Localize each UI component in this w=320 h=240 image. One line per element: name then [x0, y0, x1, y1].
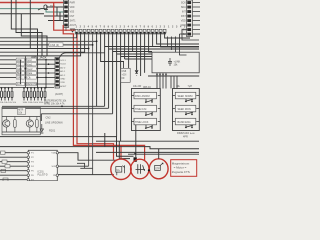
svg-text:VDD: VDD [181, 20, 186, 23]
wire into CN8 [123, 62, 125, 69]
wire pin2 left fan [0, 33, 81, 56]
svg-text:CN2: CN2 [46, 117, 52, 120]
svg-text:ACK: ACK [17, 83, 22, 86]
svg-text:4PR: 4PR [183, 135, 188, 138]
wire vertical bus left C [21, 14, 47, 56]
svg-text:10k AW: 10k AW [133, 85, 142, 88]
svg-text:AOUT: AOUT [60, 85, 67, 88]
svg-text:VDD: VDD [60, 82, 65, 84]
harness row 4 [0, 71, 55, 75]
filter box F4 [1, 169, 6, 172]
svg-text:SHT1: SHT1 [70, 21, 77, 23]
wire CN9 drop 1 [182, 30, 199, 41]
filter box F3 [5, 165, 10, 168]
IC1 pin numbers [76, 26, 186, 29]
harness row 2 [0, 63, 55, 67]
wire pin14 right bus [128, 33, 130, 68]
wire CN pin2 [46, 6, 64, 8]
connector CN7 body [55, 58, 60, 89]
svg-text:+CN: +CN [122, 75, 127, 77]
svg-text:CN8: CN8 [122, 71, 127, 73]
connector CN1 pin labels [70, 3, 77, 28]
wire right weave 2 [171, 37, 173, 51]
IC201 body [28, 150, 57, 181]
wire IC201 out1 [59, 153, 117, 161]
svg-text:INT: INT [182, 11, 186, 14]
wire pin4 long vertical [88, 33, 90, 166]
wire pin7 [101, 33, 124, 62]
wire matrix drop 4 [165, 73, 167, 89]
switch S4 box [175, 92, 196, 99]
wire full width mid [0, 147, 199, 149]
wire fan drop to bus [96, 41, 98, 106]
harness row 1 [0, 58, 55, 62]
svg-text:VDD: VDD [70, 7, 75, 9]
wire harness junction column [45, 60, 47, 88]
svg-text:(ACRT): (ACRT) [55, 93, 63, 96]
IC201 left pins [27, 152, 29, 181]
wire driver top rail [2, 116, 40, 118]
svg-text:10k 10k 10k 10k: 10k 10k 10k 10k [0, 102, 17, 104]
switch S3 box [134, 118, 157, 125]
wire pin pad bus [75, 33, 166, 35]
wire IC201 in2 [0, 156, 27, 158]
wire matrix drop 1 [156, 73, 158, 89]
plug symbol TM5 [38, 5, 48, 10]
node harness dots [45, 59, 49, 88]
svg-text:SCK: SCK [181, 2, 186, 5]
svg-text:CN6 (3): CN6 (3) [50, 43, 59, 47]
wire driver bottom rail [2, 131, 40, 133]
wire red trace inner [63, 25, 144, 160]
svg-text:LINE UP/DOWN: LINE UP/DOWN [45, 122, 63, 125]
switch S3 contacts [132, 122, 154, 129]
svg-text:Data: Data [27, 72, 33, 75]
wire IC201 out2 [59, 165, 89, 167]
switch matrix left frame [132, 89, 161, 131]
wire pin9 to matrix [109, 33, 199, 108]
connector CN9 labels [180, 2, 186, 37]
wire matrix drop 3 [162, 73, 164, 89]
switch S6 box [175, 118, 196, 125]
wire pin15 right bus [132, 33, 134, 52]
diode D1 [135, 71, 138, 74]
wire into M3 [158, 149, 160, 159]
wire matrix drop 6 [173, 76, 175, 89]
svg-text:A-66: A-66 [190, 132, 195, 135]
svg-text:SCLK: SCLK [60, 64, 66, 66]
connector CN9 body top right [187, 0, 193, 37]
svg-text:STP: STP [155, 168, 160, 170]
capacitor C9 between motors [134, 125, 137, 162]
motor M1 circled [111, 159, 131, 179]
wire jack drop 1 [20, 60, 22, 84]
wire pin23 [165, 33, 190, 38]
node CN6 label [49, 43, 63, 47]
wire resistor ladder bus [0, 87, 54, 89]
annotation red note box [171, 160, 197, 177]
wire matrix drop 2 [159, 73, 161, 89]
wire black horizontal top-left [0, 13, 44, 15]
switch S4 contacts [185, 96, 199, 102]
wire CN2 line [41, 114, 112, 121]
switch matrix right frame [173, 89, 200, 131]
wire IC201 in6 [0, 174, 27, 176]
wire IC201 in1 [0, 152, 27, 154]
wire pin21 [157, 33, 199, 44]
resistor bank 1 [1, 88, 13, 101]
svg-text:Zugseite FTS: Zugseite FTS [172, 170, 190, 174]
wire pin18 [144, 33, 146, 73]
node junction fan [88, 40, 98, 49]
wire red supply top rail [0, 2, 66, 4]
wire pin5 long vertical [92, 33, 94, 175]
wire left bus row [0, 44, 93, 46]
box MTR label [18, 108, 26, 115]
connector CN8 box [121, 68, 130, 82]
wire pin6 left fan [0, 33, 97, 41]
wire pin17 [140, 33, 142, 76]
svg-text:GND: GND [180, 24, 186, 27]
wire vertical bus left A [11, 0, 37, 56]
switch S5 box [175, 105, 196, 112]
svg-text:SEEK NORM: SEEK NORM [178, 95, 193, 98]
wire pin19 [149, 33, 152, 52]
IC201 right pins [56, 152, 58, 177]
connector CN9 pins [187, 1, 191, 35]
wire lower right bus [96, 152, 199, 154]
svg-text:SCK: SCK [52, 166, 57, 168]
switch S1 contacts [132, 96, 154, 103]
wire matrix drop 5 [170, 76, 172, 89]
svg-text:TIME D-M: TIME D-M [135, 108, 146, 111]
resistor bank 2 [23, 88, 46, 101]
wire pin11 staircase [117, 33, 152, 137]
svg-text:100k 100k 100k 100k 100k: 100k 100k 100k 100k 100k [23, 102, 50, 104]
wire pin16 diode branch [136, 33, 138, 76]
motor M2 circled [131, 159, 149, 179]
transistor Q2 [26, 120, 33, 127]
connector CN7 labels [60, 60, 67, 88]
svg-text:AD 0: AD 0 [60, 66, 66, 69]
wire jack drop 2 [24, 57, 26, 88]
svg-text:PLL/DT-D: PLL/DT-D [38, 175, 48, 177]
resistor bank 1 dots [1, 87, 13, 89]
wire bottom elbow texture [77, 163, 93, 168]
wire full width upper [0, 137, 134, 157]
wire right weave 1 [167, 37, 169, 48]
transistor Q1 [3, 120, 10, 127]
switch S6 contacts [185, 122, 199, 128]
svg-text:Key1: Key1 [27, 64, 33, 66]
wire matrix drop 7 [176, 76, 178, 89]
wire pin12 down to bottom [119, 33, 152, 159]
wire right stub KOM [96, 140, 199, 142]
box driver stage [2, 107, 40, 135]
svg-text:7μH: 7μH [188, 85, 193, 88]
svg-text:LRG: LRG [17, 60, 22, 62]
filter box F5 [3, 178, 8, 181]
svg-text:VSS: VSS [70, 12, 75, 14]
node dots under box [156, 74, 166, 75]
wire double remote bus lower [2, 107, 109, 109]
svg-text:R201: R201 [49, 129, 56, 133]
node dot between M2 M3 [148, 169, 150, 171]
wire pin8 to matrix [105, 33, 199, 147]
wire CN9 drop 2 [180, 34, 187, 55]
wire jack drop 3 [37, 57, 39, 88]
node jack drop dots [20, 68, 39, 89]
IC201 left pin labels [31, 153, 34, 182]
filter box F2 [2, 160, 7, 163]
switch S1 box [134, 92, 157, 99]
svg-text:GRN: GRN [17, 69, 22, 71]
svg-text:SCL1: SCL1 [60, 60, 66, 62]
motor M3 circled [149, 159, 168, 179]
connector CN7 pins [56, 58, 59, 86]
switch matrix mid bracket [158, 96, 160, 122]
wire double remote bus upper [2, 105, 105, 107]
svg-text:MTR: MTR [18, 110, 23, 112]
svg-text:REMOTE: REMOTE [27, 84, 37, 86]
wire IC201 in7 [0, 179, 27, 181]
svg-text:CNT: CNT [70, 16, 75, 18]
wire vertical bus left B [16, 0, 42, 56]
resistor bank 2 dots [23, 87, 46, 89]
svg-text:GND: GND [60, 79, 65, 81]
svg-text:RST: RST [181, 15, 186, 18]
wire teal signal [0, 9, 64, 12]
wire pin20 [152, 33, 154, 46]
wire IC201 in4 [0, 165, 27, 167]
IC201 right pin labels [51, 153, 56, 178]
switch S2 box [134, 105, 157, 112]
connector CN1 body [64, 0, 69, 28]
wire below box [148, 75, 199, 77]
box shield right [152, 52, 199, 73]
wire pin3 left fan [0, 33, 85, 52]
ground diode below CN1 [66, 28, 75, 35]
capacitor +LINK [168, 58, 172, 66]
svg-text:AD 2: AD 2 [60, 74, 66, 77]
switch matrix right bracket [173, 96, 177, 122]
wire IC201 in5 [0, 170, 27, 172]
svg-text:TIME LOCK: TIME LOCK [135, 121, 149, 124]
node junction remote [61, 105, 63, 107]
wire CN pin5 [48, 12, 64, 21]
wire CN pin4 [44, 7, 64, 16]
switch S5 contacts [185, 109, 199, 115]
svg-text:DISC AM/FM: DISC AM/FM [135, 95, 150, 98]
wire red trace outer [54, 3, 114, 160]
wire left bus row b [0, 48, 89, 50]
connector CN1 pins [64, 1, 68, 26]
wire pin10 to matrix [113, 33, 152, 114]
switch S2 contacts [132, 109, 154, 116]
wire pin13 right bus [125, 33, 152, 59]
svg-text:Gnd: Gnd [27, 60, 32, 62]
svg-text:SDA: SDA [181, 6, 186, 9]
svg-text:Key2: Key2 [27, 69, 33, 71]
harness row 3 [0, 67, 55, 71]
wire CN7 top elbow [60, 53, 105, 58]
svg-text:AD 1: AD 1 [60, 70, 66, 73]
harness row 5 [0, 76, 55, 80]
harness row 6 [0, 82, 55, 86]
IC1 pin dots [76, 32, 166, 34]
wire IC201 in3 [0, 161, 27, 163]
svg-text:IC201: IC201 [38, 172, 45, 174]
svg-text:SEEK MON: SEEK MON [178, 108, 191, 111]
wire pin1 left fan [0, 33, 77, 38]
wire vertical bus left D [29, 0, 31, 49]
connector CN9 stubs [193, 3, 201, 35]
svg-text:VDD: VDD [51, 153, 56, 155]
resistor R12 [36, 120, 39, 128]
svg-text:YEL: YEL [17, 64, 22, 66]
svg-text:ORG: ORG [17, 78, 22, 80]
filter box F1 [1, 151, 6, 154]
wire pin22 [161, 33, 199, 47]
svg-text:BAND ENG: BAND ENG [178, 121, 191, 124]
IC1 pin row pads [75, 29, 166, 33]
svg-text:PWR: PWR [70, 3, 76, 5]
wire IC201 out3 [59, 174, 114, 176]
resistor R11 [14, 120, 17, 128]
diode ground CN2 [40, 124, 43, 133]
wire right weave 3 [175, 37, 177, 53]
